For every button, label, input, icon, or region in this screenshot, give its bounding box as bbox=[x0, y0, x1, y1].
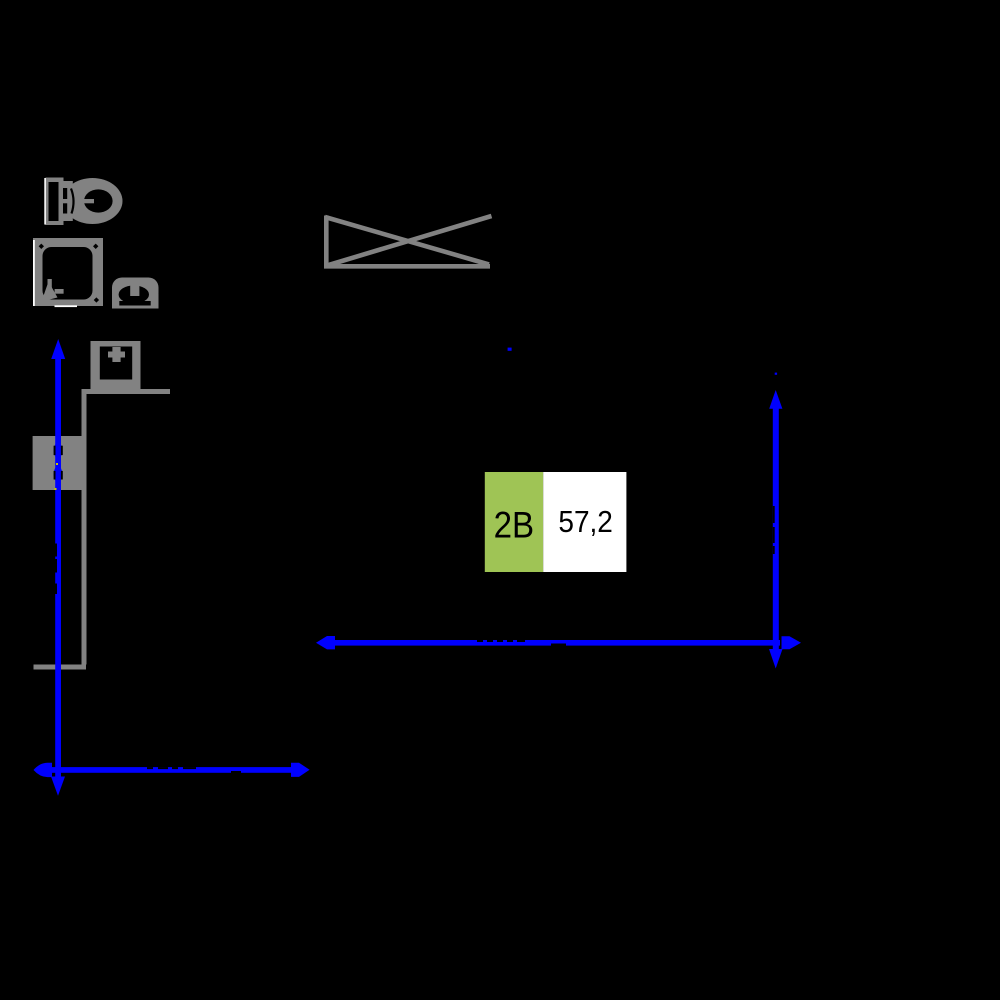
wall tick bottom bbox=[34, 665, 87, 670]
dimension text marks middle horizontal bbox=[477, 640, 566, 648]
wash basin bbox=[112, 278, 159, 309]
blue speck top bbox=[775, 373, 777, 375]
dimension text marks right vertical bbox=[773, 506, 775, 554]
door hinge marks bbox=[54, 446, 63, 480]
apartment label white box bbox=[543, 472, 626, 572]
svg-text:57,2: 57,2 bbox=[558, 504, 613, 539]
apartment label green box bbox=[485, 472, 543, 572]
shower drain arrow bbox=[48, 279, 52, 288]
wall vertical left bbox=[82, 389, 87, 665]
yellow specks bbox=[56, 463, 58, 465]
blue speck center bbox=[508, 348, 512, 351]
dimension line vertical right bbox=[769, 390, 783, 669]
svg-text:2B: 2B bbox=[494, 505, 534, 546]
dimension line horizontal bottom-left bbox=[34, 763, 310, 777]
washing machine bbox=[91, 341, 141, 393]
door leaf bbox=[33, 436, 83, 490]
toilet WC bbox=[44, 178, 122, 226]
dimension text marks left vertical bbox=[55, 544, 57, 595]
wall horizontal top bbox=[83, 389, 170, 394]
window symbol bbox=[324, 216, 492, 269]
dimension text marks bottom horizontal bbox=[147, 767, 241, 774]
shower tray bbox=[33, 238, 103, 307]
dimension line horizontal middle bbox=[316, 636, 801, 649]
dimension line vertical left bbox=[51, 339, 65, 796]
